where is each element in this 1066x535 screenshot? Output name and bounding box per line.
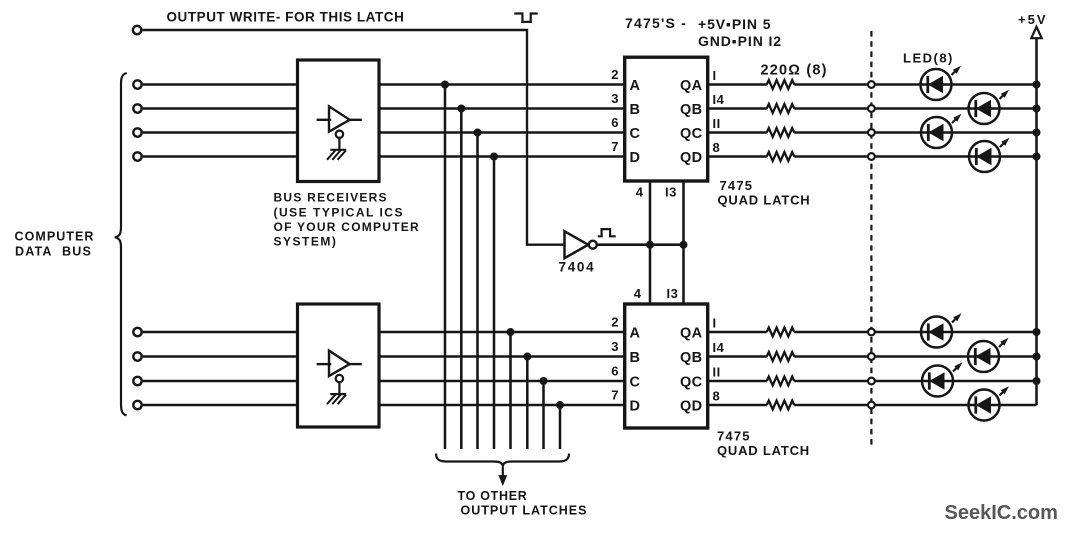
svg-text:2: 2: [611, 67, 618, 82]
wire +5V bus vertical: [1035, 38, 1038, 405]
wire top latch Q3 to resistor: [708, 131, 767, 134]
label 7475 QUAD LATCH (top): [718, 178, 811, 208]
wire top data line 3 into receiver: [143, 131, 298, 134]
svg-text:QC: QC: [680, 374, 703, 390]
junction bus/top LED line 3: [1033, 129, 1041, 137]
LED D2: [969, 90, 1010, 124]
svg-text:OF YOUR COMPUTER: OF YOUR COMPUTER: [274, 220, 420, 234]
svg-text:I: I: [713, 68, 717, 83]
svg-text:6: 6: [611, 364, 618, 379]
label TO OTHER OUTPUT LATCHES: [458, 489, 588, 517]
wire inverter output to clock pins: [597, 243, 684, 246]
junction bus/top LED line 4: [1033, 153, 1041, 161]
wire resistor R3 to +5V bus: [794, 131, 1036, 134]
node boundary terminal 2: [868, 105, 875, 112]
junction on bottom data line 2: [523, 353, 531, 361]
wire drop 8 to other latches: [559, 405, 562, 449]
node OUTPUT WRITE input terminal: [133, 26, 141, 34]
wire drop 4 to other latches: [493, 157, 496, 450]
LED D4: [969, 138, 1010, 172]
svg-text:DATA BUS: DATA BUS: [15, 245, 92, 259]
wire top latch Q1 to resistor: [708, 83, 767, 86]
svg-text:QA: QA: [680, 325, 703, 341]
node boundary terminal 1: [868, 81, 875, 88]
junction on bottom data line 1: [507, 328, 515, 336]
wire drop 1 to other latches: [444, 85, 447, 450]
svg-text:7404: 7404: [559, 260, 596, 275]
svg-text:8: 8: [713, 140, 721, 155]
wire top receiver output 3 to latch pin: [379, 131, 625, 134]
junction on top data line 3: [474, 129, 482, 137]
junction on bottom data line 3: [540, 377, 548, 385]
svg-text:7: 7: [611, 139, 618, 154]
node boundary terminal 4: [868, 153, 875, 160]
svg-text:OUTPUT WRITE- FOR THIS LATCH: OUTPUT WRITE- FOR THIS LATCH: [167, 10, 405, 25]
svg-text:QB: QB: [680, 102, 703, 118]
node bottom bus input terminal 1: [133, 328, 141, 336]
wire drop 7 to other latches: [542, 381, 545, 449]
junction bus/bottom LED line 2: [1033, 353, 1041, 361]
label 7475'S supply note: [625, 15, 782, 49]
latch U3 7475 (top) box: [625, 57, 708, 181]
wire resistor R1 to +5V bus: [794, 83, 1036, 86]
bus receiver U2 buffer symbol with ground: [317, 351, 362, 405]
junction on bottom data line 4: [556, 401, 564, 409]
brace gathering drop wires: [436, 454, 569, 467]
bus receiver U1 buffer symbol with ground: [317, 106, 362, 160]
resistor R8 220 ohm: [767, 401, 794, 410]
svg-text:7: 7: [611, 388, 618, 403]
latch U4 7475 (bottom) box: [625, 304, 708, 428]
svg-text:GND▪PIN I2: GND▪PIN I2: [698, 33, 782, 49]
svg-text:8: 8: [713, 389, 721, 404]
svg-text:I4: I4: [713, 92, 725, 107]
svg-text:(USE TYPICAL ICS: (USE TYPICAL ICS: [274, 205, 404, 219]
node bottom bus input terminal 2: [133, 352, 141, 360]
svg-text:II: II: [713, 365, 721, 380]
wire resistor R6 to +5V bus: [794, 355, 1036, 358]
LED D5: [921, 313, 962, 347]
wire resistor R5 to +5V bus: [794, 331, 1036, 334]
LED D3: [921, 114, 962, 148]
svg-text:D: D: [630, 150, 640, 166]
wire bottom data line 2 into receiver: [143, 355, 298, 358]
svg-text:3: 3: [611, 339, 618, 354]
+5V arrow: [1031, 27, 1041, 38]
bus receiver U2 (bottom) box: [298, 304, 380, 427]
wire OUTPUT WRITE horizontal+vertical to inverter input: [143, 30, 565, 245]
wire top latch Q2 to resistor: [708, 107, 767, 110]
wire bottom data line 4 into receiver: [143, 404, 298, 407]
label 7475 QUAD LATCH (bottom): [717, 428, 810, 458]
wire resistor R4 to +5V bus: [794, 155, 1036, 158]
wire top data line 1 into receiver: [143, 83, 298, 86]
wire bottom receiver output 2 to latch pin: [379, 355, 625, 358]
svg-text:QD: QD: [680, 150, 703, 166]
junction on top data line 2: [457, 105, 465, 113]
svg-text:QUAD LATCH: QUAD LATCH: [718, 193, 811, 208]
junction bus/bottom LED line 1: [1033, 328, 1041, 336]
wire bottom latch Q4 to resistor: [708, 404, 767, 407]
svg-text:7475: 7475: [717, 428, 751, 443]
svg-text:7475'S -: 7475'S -: [625, 15, 687, 31]
wire bottom data line 3 into receiver: [143, 380, 298, 383]
positive pulse symbol at inverter output: [598, 229, 616, 236]
wire drop 3 to other latches: [476, 133, 479, 450]
junction bus/top LED line 2: [1033, 105, 1041, 113]
wire bottom latch Q3 to resistor: [708, 380, 767, 383]
svg-text:B: B: [630, 102, 640, 118]
wire clock vertical pin4: [649, 181, 652, 304]
svg-text:4: 4: [636, 185, 644, 200]
LED D1: [921, 66, 962, 100]
junction on top data line 4: [490, 153, 498, 161]
wire top receiver output 2 to latch pin: [379, 107, 625, 110]
label COMPUTER DATA BUS: [15, 230, 95, 259]
resistor R5 220 ohm: [767, 328, 794, 337]
wire resistor R7 to +5V bus: [794, 380, 1036, 383]
node top bus input terminal 4: [133, 152, 141, 160]
LED D8: [969, 386, 1010, 420]
node bottom bus input terminal 4: [133, 401, 141, 409]
wire top data line 2 into receiver: [143, 107, 298, 110]
inverter 7404 output bubble: [589, 241, 597, 249]
wire clock vertical pin13: [682, 181, 685, 304]
svg-text:7475: 7475: [720, 178, 754, 193]
node top bus input terminal 3: [133, 128, 141, 136]
wire top latch Q4 to resistor: [708, 155, 767, 158]
label BUS RECEIVERS note: [274, 191, 420, 249]
node boundary terminal 7: [868, 378, 875, 385]
svg-text:LED(8): LED(8): [903, 51, 954, 66]
wire top receiver output 4 to latch pin: [379, 155, 625, 158]
arrow to other output latches: [499, 466, 506, 485]
svg-text:B: B: [630, 350, 640, 366]
node top bus input terminal 1: [133, 80, 141, 88]
svg-text:C: C: [630, 374, 641, 390]
svg-text:A: A: [630, 325, 641, 341]
resistor R1 220 ohm: [767, 80, 794, 89]
svg-text:3: 3: [611, 91, 618, 106]
resistor R4 220 ohm: [767, 152, 794, 161]
wire bottom receiver output 1 to latch pin: [379, 331, 625, 334]
junction on top data line 1: [441, 81, 449, 89]
junction bus/top LED line 1: [1033, 81, 1041, 89]
svg-text:SYSTEM): SYSTEM): [274, 234, 338, 248]
svg-text:QB: QB: [680, 350, 703, 366]
svg-text:220Ω (8): 220Ω (8): [761, 63, 828, 79]
svg-text:OUTPUT LATCHES: OUTPUT LATCHES: [461, 503, 588, 517]
svg-text:QUAD LATCH: QUAD LATCH: [717, 443, 810, 458]
LED D7: [922, 362, 963, 396]
wire bottom receiver output 4 to latch pin: [379, 404, 625, 407]
wire bottom latch Q1 to resistor: [708, 331, 767, 334]
junction bus/bottom LED line 3: [1033, 377, 1041, 385]
svg-text:TO OTHER: TO OTHER: [458, 489, 528, 503]
svg-text:C: C: [630, 126, 641, 142]
svg-text:I3: I3: [665, 185, 677, 200]
node boundary terminal 5: [868, 329, 875, 336]
wire drop 2 to other latches: [460, 109, 463, 450]
wire top receiver output 1 to latch pin: [379, 83, 625, 86]
wire top data line 4 into receiver: [143, 155, 298, 158]
svg-text:QA: QA: [680, 78, 703, 94]
node top bus input terminal 2: [133, 104, 141, 112]
svg-text:A: A: [630, 78, 641, 94]
computer data bus brace: [115, 73, 127, 415]
svg-text:D: D: [630, 398, 640, 414]
resistor R6 220 ohm: [767, 352, 794, 361]
svg-text:QC: QC: [680, 126, 703, 142]
wire bottom receiver output 3 to latch pin: [379, 380, 625, 383]
inverter 7404 triangle: [565, 231, 589, 258]
dashed board boundary line: [870, 31, 872, 447]
node boundary terminal 6: [868, 353, 875, 360]
node boundary terminal 8: [868, 402, 875, 409]
node bottom bus input terminal 3: [133, 377, 141, 385]
svg-text:4: 4: [634, 286, 642, 301]
svg-text:I: I: [713, 316, 717, 331]
svg-text:SeekIC.com: SeekIC.com: [945, 502, 1058, 524]
junction clock/pin13: [680, 241, 688, 249]
wire bottom latch Q2 to resistor: [708, 355, 767, 358]
svg-text:6: 6: [611, 115, 618, 130]
svg-text:II: II: [713, 116, 721, 131]
svg-text:COMPUTER: COMPUTER: [15, 230, 95, 244]
resistor R3 220 ohm: [767, 128, 794, 137]
svg-text:+5V▪PIN 5: +5V▪PIN 5: [698, 16, 771, 32]
resistor R2 220 ohm: [767, 104, 794, 113]
wire bottom data line 1 into receiver: [143, 331, 298, 334]
negative pulse symbol: [514, 14, 537, 22]
wire resistor R2 to +5V bus: [794, 107, 1036, 110]
svg-text:+5V: +5V: [1018, 12, 1048, 27]
svg-text:I4: I4: [713, 340, 725, 355]
svg-text:2: 2: [611, 315, 618, 330]
node boundary terminal 3: [868, 129, 875, 136]
wire resistor R8 to +5V bus: [794, 404, 1036, 407]
LED D6: [968, 338, 1009, 372]
svg-text:QD: QD: [680, 398, 703, 414]
junction clock/pin4: [646, 241, 654, 249]
bus receiver U1 (top) box: [298, 60, 380, 182]
resistor R7 220 ohm: [767, 377, 794, 386]
svg-text:I3: I3: [667, 286, 679, 301]
wire drop 5 to other latches: [509, 332, 512, 449]
svg-text:BUS RECEIVERS: BUS RECEIVERS: [274, 191, 388, 205]
wire drop 6 to other latches: [526, 357, 529, 450]
